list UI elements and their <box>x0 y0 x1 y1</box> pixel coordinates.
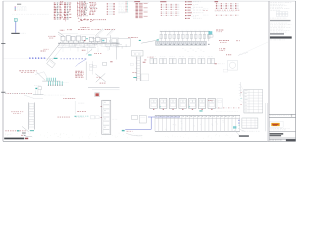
border matchline tick left upper <box>1 43 5 45</box>
distribution fan taps <box>42 78 63 86</box>
title block rule 3 <box>269 131 296 133</box>
feeder label red 2 <box>94 52 101 55</box>
secondary bus line <box>58 45 96 47</box>
address text rows <box>270 128 289 130</box>
switchboard end box <box>112 39 131 47</box>
cluster base line <box>33 94 44 96</box>
cabinet top lines <box>88 88 120 90</box>
logo box <box>270 121 283 127</box>
feeder run diagonal A <box>47 42 62 61</box>
generator tag cluster <box>215 62 225 65</box>
table blue dots <box>238 120 239 126</box>
panel riser ladder <box>29 103 35 130</box>
bottom arc text <box>131 134 142 137</box>
title block header rule <box>269 113 296 115</box>
revision issue bar <box>270 36 292 38</box>
upper red callout <box>48 36 55 39</box>
sheet border frame <box>3 1 296 141</box>
sheet number band <box>269 139 296 141</box>
utility meter M1 <box>14 19 17 22</box>
device label red <box>63 97 75 100</box>
legend text rows <box>17 7 27 11</box>
revision highlighted row <box>270 20 291 21</box>
device label deg <box>78 102 84 105</box>
relay header red <box>148 56 154 59</box>
feeder diagonal short <box>86 49 92 54</box>
teal lower node <box>122 130 125 131</box>
keynote block 3 <box>54 15 71 19</box>
title block divider <box>268 1 269 141</box>
notes leader line <box>80 16 82 20</box>
lower red label <box>127 130 133 133</box>
notes underline <box>90 6 97 8</box>
title block rule 2 <box>269 116 296 118</box>
riser vertical line <box>85 62 87 81</box>
fan feeder diagonal <box>36 72 45 80</box>
table feed wire vertical <box>240 82 242 96</box>
fan apex wires <box>35 72 47 78</box>
panel schedule column <box>134 1 150 18</box>
note column A <box>60 1 63 5</box>
feeder tags right 3 <box>219 48 225 51</box>
bottom feeder dashed wire <box>5 130 26 133</box>
cluster label right <box>44 94 66 97</box>
lower left red dashes <box>58 116 70 119</box>
title block rule 4 <box>269 137 296 139</box>
fan label row <box>19 70 37 72</box>
matrix teal end <box>233 126 236 128</box>
feeder vertical 2 <box>115 43 117 59</box>
MCC feed label <box>128 36 138 39</box>
branch blue diagonal <box>76 59 87 67</box>
MCC feed teal node A <box>139 40 141 41</box>
ground bar <box>11 33 19 34</box>
MCC lineup <box>160 30 210 41</box>
drawing title text <box>4 138 28 140</box>
table red dots left <box>240 92 243 105</box>
keynote block 2 <box>54 9 71 15</box>
upper tie lines <box>60 34 95 35</box>
equipment list table lower <box>242 118 258 128</box>
right arc <box>238 128 245 131</box>
general notes list <box>77 2 97 22</box>
feeder label midslope <box>41 49 49 51</box>
feeder label red <box>82 49 86 52</box>
feeder tag row <box>80 18 106 21</box>
equipment box K1 <box>103 62 107 65</box>
legend chip blue <box>15 7 16 10</box>
bus clutter marks <box>62 44 107 47</box>
table leader lines <box>238 85 244 103</box>
ground label <box>20 32 26 35</box>
generator sub box <box>223 69 228 72</box>
cabinet label right <box>112 118 117 121</box>
teal splice <box>88 54 91 55</box>
small boxes pair <box>91 116 100 119</box>
switchboard right enclosure <box>101 38 118 47</box>
project name text <box>270 133 284 136</box>
circuit schedule brackets <box>107 3 115 15</box>
cabinet red label <box>77 110 86 113</box>
revision stamp grid <box>276 12 288 17</box>
left bottom arc <box>23 135 32 137</box>
border matchline tick left lower <box>1 91 5 93</box>
feeder run diagonal B <box>52 44 66 62</box>
junction boxes small <box>89 64 96 70</box>
tertiary bus line <box>58 47 96 49</box>
riser ladder column <box>136 57 141 82</box>
numbered keynotes list <box>185 1 204 18</box>
ladder teal tag <box>133 77 136 78</box>
MCC label red <box>216 30 223 32</box>
relay row red dash <box>144 59 146 62</box>
lower stub drops <box>63 48 92 52</box>
feeder schedule callout <box>75 71 83 78</box>
X label <box>97 76 101 79</box>
blue feeder lower <box>125 128 151 130</box>
feeder tags right 4 <box>226 53 231 56</box>
right dark caption <box>239 135 249 137</box>
sub panel boxes below bus <box>70 43 112 47</box>
main bus <box>58 42 120 44</box>
red tag near K1 <box>110 60 112 63</box>
legend chip teal <box>15 8 16 11</box>
background grid dots <box>5 133 232 139</box>
matchline vertical <box>265 103 267 131</box>
service riser wire <box>15 21 17 33</box>
MCC hatched base band <box>156 41 210 45</box>
keynote block 1 <box>54 3 71 9</box>
revision cloud faint <box>238 52 248 56</box>
pad transformer T1 <box>47 59 56 67</box>
control panel box <box>132 51 144 57</box>
MCC feed wire <box>141 38 160 43</box>
legend chip red <box>15 9 16 12</box>
teal text cluster <box>75 116 89 118</box>
revision issue caption <box>270 39 284 42</box>
right caption row <box>242 130 260 133</box>
feeder tags right 2 <box>236 39 240 42</box>
faint long diagonal <box>239 42 269 56</box>
ladder red tags left <box>11 111 23 113</box>
equipment cabinet stack <box>101 100 111 134</box>
ladder teal bottom <box>30 130 34 131</box>
cluster sub line <box>33 97 43 99</box>
incoming service wires <box>58 32 64 37</box>
red filled device <box>95 93 100 97</box>
revision table text rows <box>270 2 291 10</box>
equipment schedule table <box>215 1 240 15</box>
outgoing faint row <box>216 110 238 113</box>
conduit leader <box>47 57 54 59</box>
ladder feed dash <box>22 133 26 134</box>
outgoing dashed feeder <box>216 107 240 110</box>
title small text above <box>5 134 26 135</box>
blue feeder horizontal <box>148 116 180 118</box>
schedule side notes <box>203 9 209 16</box>
switchgear label row <box>60 29 115 31</box>
revision row text <box>270 17 286 20</box>
bus annotation row <box>59 44 117 47</box>
table tick marks <box>239 85 241 94</box>
legend title <box>17 3 21 6</box>
transformer T2 cluster <box>34 85 42 94</box>
control wire diagonal <box>24 95 34 98</box>
generator G1 <box>228 61 238 71</box>
title block header band <box>270 114 292 117</box>
bus teal tap <box>86 38 87 39</box>
bus stub drops <box>78 47 108 53</box>
fixture cluster callouts <box>60 12 69 22</box>
lighting schedule table <box>118 2 128 14</box>
legend footnote row <box>12 13 49 16</box>
matrix end arc <box>234 130 240 136</box>
MCC hatch shadow <box>182 48 204 52</box>
bus red device <box>84 40 85 41</box>
ladder feed diagonal <box>22 126 29 131</box>
revision note rows <box>270 23 291 33</box>
MCC feed teal node B <box>157 39 159 40</box>
relay module row <box>150 56 215 64</box>
vertical drop K2 <box>92 61 94 74</box>
cabinet feed vertical <box>74 101 76 114</box>
panel label row <box>81 26 90 29</box>
cubicle row label <box>208 99 213 102</box>
device grid table <box>160 1 179 16</box>
junction box row <box>132 115 147 123</box>
cubicle teal tag <box>199 110 202 111</box>
blue feeder drop <box>150 117 152 129</box>
breaker cyan module <box>102 40 104 41</box>
ladder top red tags <box>132 71 136 74</box>
revision dark bar 2 <box>270 33 284 34</box>
conduit stub row <box>29 58 45 59</box>
company logo <box>271 123 279 126</box>
main switchboard sections <box>61 36 106 43</box>
teal conduit tag <box>54 58 58 59</box>
crossed feeders X <box>95 73 105 82</box>
breaker cubicle row <box>150 98 223 109</box>
ladder bottom box <box>141 74 149 81</box>
legend chip magenta <box>15 6 16 9</box>
X bottom label <box>100 82 106 85</box>
bottom feeder teal node <box>17 130 19 131</box>
switchboard internal wiring <box>76 36 126 50</box>
equipment list table upper <box>244 90 263 114</box>
riser wires diagonal <box>96 29 116 36</box>
fan right labels <box>57 81 69 84</box>
MCC teal unit <box>208 31 213 37</box>
ladder red tag <box>143 61 146 64</box>
wire to left border <box>4 58 29 60</box>
branch circuit wiring blue <box>61 57 86 60</box>
feeder vertical 1 <box>110 35 112 46</box>
bottom arc swoosh <box>126 133 142 136</box>
control wire dashed to border <box>5 92 32 95</box>
ladder side box <box>130 63 133 65</box>
feeder schedule matrix <box>155 115 240 131</box>
feeder tags right 1 <box>219 40 229 43</box>
